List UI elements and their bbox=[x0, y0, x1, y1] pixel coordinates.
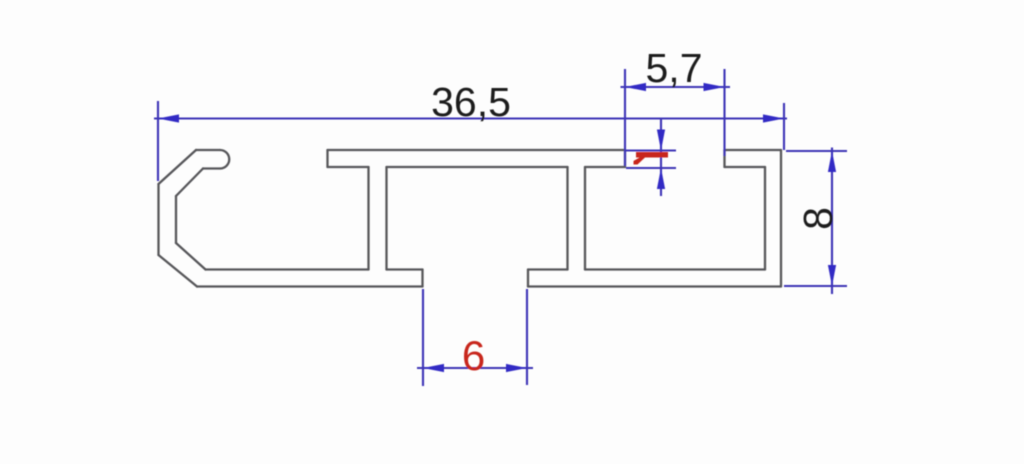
profile hook inner left wall bbox=[175, 196, 177, 243]
dim 8 bottom extension line bbox=[784, 285, 847, 287]
svg-text:8: 8 bbox=[795, 207, 841, 230]
profile bottom slot left edge bbox=[421, 270, 423, 287]
dim 6 left extension line bbox=[422, 289, 424, 386]
profile middle cavity top edge bbox=[387, 166, 568, 168]
profile right cavity top edge left segment bbox=[585, 166, 625, 168]
profile hook outer left wall bbox=[157, 184, 159, 255]
profile hook top edge bbox=[196, 149, 220, 151]
profile outer right edge bbox=[780, 150, 782, 287]
profile middle cavity right wall bbox=[566, 167, 568, 270]
dim 36,5 right extension line bbox=[783, 103, 785, 150]
dim 8 top extension line bbox=[786, 150, 847, 152]
dim 36,5 dimension line bbox=[154, 117, 787, 119]
dim 6 left arrowhead bbox=[423, 364, 444, 372]
dim 1 lower arrowhead pointing up bbox=[657, 168, 665, 189]
dim 1 top extension line bbox=[626, 149, 676, 151]
profile hook inner bottom chamfer bbox=[176, 243, 206, 270]
dim 36,5 left extension line bbox=[157, 101, 159, 181]
dim 6 right arrowhead bbox=[506, 364, 527, 372]
profile hook inner top chamfer bbox=[176, 169, 203, 197]
profile inner bottom edge of left channel bbox=[206, 268, 369, 270]
profile top flange upper edge (left of notch) bbox=[328, 149, 626, 151]
profile notch left edge bbox=[624, 150, 626, 167]
dim text 1 (red, rotated): stem stroke bbox=[636, 152, 668, 158]
dim text 1 (red, rotated): flag stroke bbox=[634, 158, 646, 165]
dim 5,7 left extension line bbox=[624, 69, 626, 166]
dim 5,7 dimension line bbox=[621, 86, 731, 88]
profile middle cavity bottom left ledge bbox=[387, 268, 423, 270]
profile bottom slot right edge bbox=[527, 270, 529, 287]
dim 1 vertical dimension line bbox=[660, 118, 662, 196]
profile middle cavity bottom right ledge bbox=[528, 268, 568, 270]
dim 6 right extension line bbox=[526, 289, 528, 385]
profile right cavity right wall bbox=[764, 167, 766, 270]
dim 5,7 right arrowhead bbox=[704, 83, 725, 91]
profile top flange upper edge (right of notch) bbox=[725, 149, 782, 151]
profile notch right edge bbox=[723, 150, 725, 167]
dim 8 bottom arrowhead pointing down bbox=[828, 265, 836, 286]
dim 1 bottom extension line bbox=[626, 167, 676, 169]
profile hook rounded tip bbox=[220, 150, 229, 169]
svg-text:36,5: 36,5 bbox=[431, 79, 511, 125]
profile hook outer bottom chamfer bbox=[159, 255, 198, 287]
profile outer bottom edge right part bbox=[528, 285, 781, 287]
svg-text:6: 6 bbox=[462, 332, 485, 379]
dim 36,5 left arrowhead bbox=[158, 114, 179, 122]
profile outer bottom edge left part bbox=[197, 285, 423, 287]
profile right cavity bottom edge bbox=[585, 268, 765, 270]
profile hook outer top chamfer bbox=[159, 150, 197, 184]
profile hook tip bottom edge bbox=[203, 167, 220, 169]
dim 5,7 left arrowhead bbox=[625, 83, 646, 91]
dim 36,5 right arrowhead bbox=[763, 114, 784, 122]
profile flange lower edge left of web bbox=[328, 166, 369, 168]
dim 1 upper arrowhead pointing down bbox=[657, 130, 665, 151]
profile flange left end bbox=[326, 150, 328, 167]
dim 5,7 right extension line bbox=[723, 69, 725, 156]
dim 8 top arrowhead pointing up bbox=[828, 151, 836, 172]
dim 6 dimension line bbox=[417, 367, 533, 369]
svg-text:5,7: 5,7 bbox=[646, 45, 703, 91]
profile right cavity top edge right segment bbox=[725, 166, 766, 168]
profile web left edge bbox=[367, 167, 369, 270]
dim 8 dimension line bbox=[831, 148, 833, 295]
profile web right edge bbox=[385, 167, 387, 270]
profile divider wall right face bbox=[584, 167, 586, 270]
